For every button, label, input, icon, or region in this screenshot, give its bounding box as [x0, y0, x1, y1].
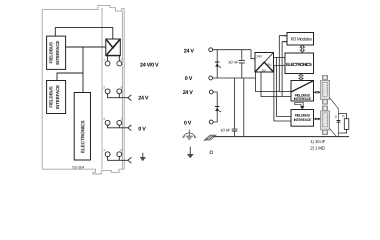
fieldbus interface U1 [47, 36, 66, 69]
svg-text:2) 1 MΩ: 2) 1 MΩ [310, 146, 325, 151]
svg-text:0 V: 0 V [185, 76, 193, 82]
shield wire from X1 [330, 98, 339, 137]
svg-text:FIELDBUS: FIELDBUS [295, 114, 311, 118]
bus wire converter tap to fieldbus B (1) [277, 58, 291, 117]
svg-text:0 V: 0 V [138, 126, 146, 132]
terminal circle 24V row1 [209, 48, 213, 52]
electronics block (right) [285, 53, 314, 74]
wire converter bottom to fieldbus A (1) [256, 72, 292, 92]
svg-text:FIELDBUS: FIELDBUS [48, 86, 53, 107]
shield wire from X2 [330, 129, 337, 137]
svg-text:I/O Modules: I/O Modules [291, 36, 313, 41]
terminal strip left rail [101, 8, 103, 170]
svg-text:ELECTRONICS: ELECTRONICS [286, 62, 312, 67]
svg-text:24 V/0 V: 24 V/0 V [140, 62, 159, 68]
wire pair 4 to jumper contact [108, 157, 128, 161]
svg-text:750-304: 750-304 [72, 165, 85, 169]
mounting circle [210, 151, 213, 154]
capacitor 1) 10nF shield [337, 121, 341, 123]
wire: internal supply vertical [82, 47, 84, 93]
wire 0V to ground via cap [234, 78, 236, 137]
svg-text:4: 4 [103, 148, 105, 152]
fieldbus interface B [291, 110, 314, 127]
bent data arrow A to B [295, 102, 303, 106]
wire pair 2 to jumper contact [108, 94, 128, 98]
terminal circle 24V row3 [209, 90, 213, 94]
coupler housing outline [42, 5, 124, 169]
data bus arrow electronics to isolation [299, 74, 303, 81]
power jumper contact earth [128, 157, 132, 163]
wire: branch to fieldbus interface 2 [57, 73, 83, 81]
terminal pair 4 circles [105, 152, 110, 157]
svg-text:INTERFACE: INTERFACE [294, 97, 312, 101]
svg-text:INTERFACE: INTERFACE [294, 118, 312, 122]
I/O module supply stubs [284, 36, 288, 42]
suppressor S2 [215, 106, 221, 112]
terminal circle 0V row4 [209, 120, 213, 124]
capacitor 10nF (input) [228, 50, 245, 78]
svg-text:1) 10 nF: 1) 10 nF [310, 139, 325, 144]
wire converter bottom to fieldbus A (2) [261, 72, 291, 97]
svg-text:3: 3 [103, 117, 105, 121]
DIN rail earth clamp [204, 135, 216, 141]
svg-text:0 V: 0 V [184, 121, 192, 127]
I/O modules block [287, 33, 314, 46]
power jumper contact 0V [128, 125, 132, 131]
wire pair 3 to jumper contact [108, 125, 128, 128]
svg-text:FIELDBUS: FIELDBUS [48, 42, 53, 63]
fieldbus interface A with isolation [291, 81, 314, 102]
svg-text:2: 2 [103, 85, 105, 89]
terminal pair 3 circles [105, 120, 110, 125]
svg-text:24 V: 24 V [183, 90, 194, 96]
terminal pair 2 circles [105, 89, 110, 94]
terminal circle 0V row2 [209, 76, 213, 80]
24V rail [213, 50, 255, 59]
earth line [213, 136, 349, 138]
power jumper contact 24V [128, 95, 132, 101]
protective earth symbol [182, 130, 196, 140]
functional earth arrow (module) [140, 153, 146, 161]
PSU output stubs [108, 56, 120, 61]
svg-text:24V: 24V [257, 55, 264, 59]
svg-text:2): 2) [342, 114, 345, 118]
resistor 2) 1Mohm shield [344, 119, 349, 130]
suppressor S1 [215, 50, 221, 78]
terminal pair 1 circles [105, 61, 110, 66]
wires converter to electronics [274, 58, 286, 66]
bus wire stub2 down [282, 42, 283, 97]
wire: fieldbus interface 1 to PSU left [66, 46, 106, 48]
wire: fieldbus interface 1 top to PSU top [55, 28, 113, 39]
bus wire stub1 down [279, 36, 283, 92]
terminal strip right rail [121, 11, 123, 169]
D-sub connector X1 [321, 75, 330, 104]
D-sub connector X2 [321, 106, 330, 135]
0V rail [213, 77, 255, 79]
svg-text:24 V: 24 V [184, 48, 195, 54]
svg-text:10 nF: 10 nF [228, 60, 239, 65]
fieldbus interface U2 [47, 81, 66, 114]
svg-text:1: 1 [103, 58, 105, 62]
bus wire converter tap to fieldbus B (2) [274, 66, 291, 122]
svg-text:24 V: 24 V [138, 95, 149, 101]
capacitor 10nF (0V to earth) [220, 127, 237, 132]
DC/DC converter 24V/5V [255, 53, 274, 73]
data arrow B to connector X2 [314, 118, 321, 121]
svg-text:10 nF: 10 nF [220, 127, 231, 132]
data bus arrow I/O to electronics [300, 45, 304, 52]
data arrow A to connector X1 [314, 91, 321, 94]
svg-text:ELECTRONICS: ELECTRONICS [80, 121, 85, 154]
field supply loop [213, 92, 217, 122]
svg-text:1): 1) [335, 115, 338, 119]
wire 0V to ground direct [243, 78, 245, 137]
electronics block [74, 93, 90, 161]
shield RC branch [338, 114, 346, 133]
svg-text:INTERFACE: INTERFACE [55, 41, 60, 65]
PSU converter (module) [106, 39, 121, 56]
svg-text:INTERFACE: INTERFACE [55, 85, 60, 109]
coupler housing bottom foot [42, 169, 124, 174]
functional earth arrow (right) [187, 147, 194, 159]
